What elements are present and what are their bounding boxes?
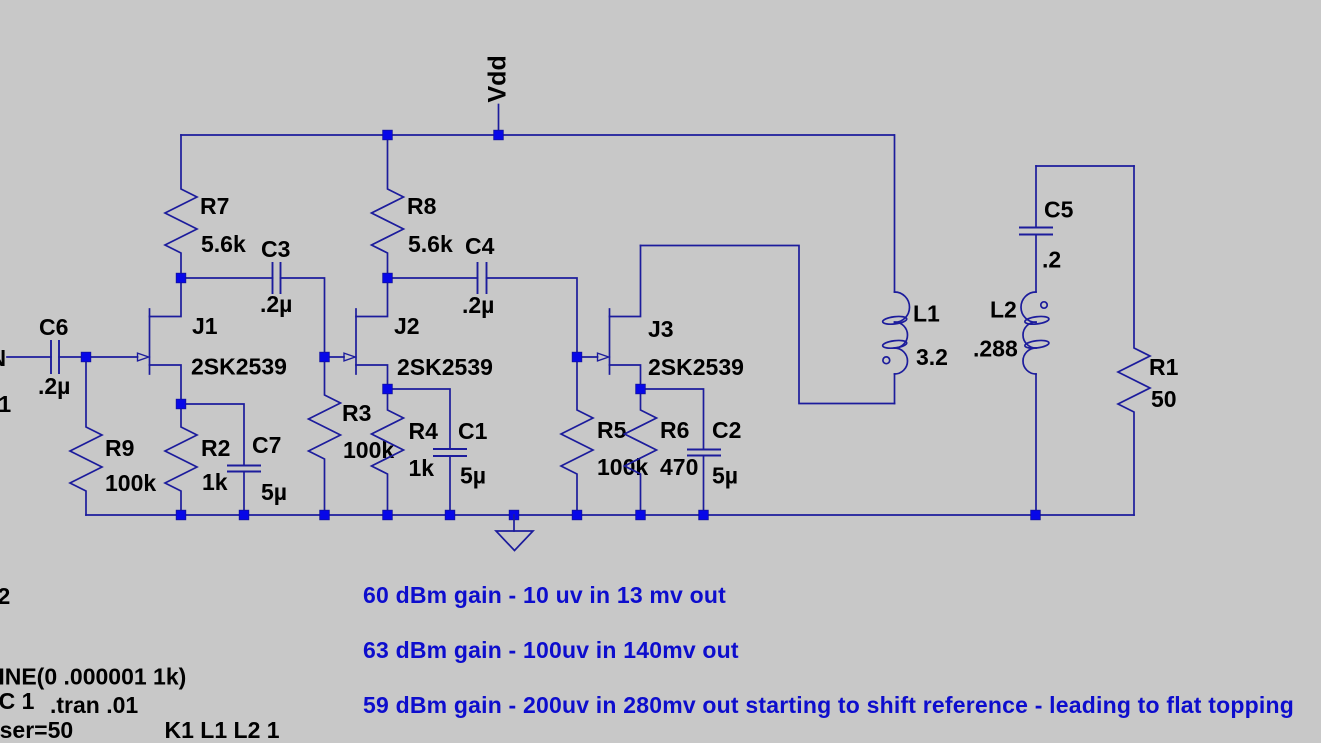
svg-text:L1: L1 xyxy=(913,301,940,327)
svg-text:1: 1 xyxy=(0,391,11,417)
node junction rail C2 xyxy=(699,510,709,520)
node junction J3 source xyxy=(636,384,646,394)
capacitor C7 xyxy=(181,404,287,515)
svg-text:1k: 1k xyxy=(409,455,435,481)
node junction J2 drain xyxy=(383,273,393,283)
svg-text:J2: J2 xyxy=(394,313,420,339)
svg-text:.2: .2 xyxy=(1042,247,1061,273)
transistor J2 2SK2539 xyxy=(344,278,493,389)
node junction rail R3 xyxy=(320,510,330,520)
node junction rail L2 xyxy=(1031,510,1041,520)
wire C5 top xyxy=(1036,165,1134,167)
svg-text:C4: C4 xyxy=(465,233,495,259)
svg-text:C6: C6 xyxy=(39,314,68,340)
svg-text:L2: L2 xyxy=(990,297,1017,323)
node junction rail R6 xyxy=(636,510,646,520)
svg-text:C3: C3 xyxy=(261,236,290,262)
wire bottom ground rail xyxy=(86,514,1134,516)
resistor R9 xyxy=(70,357,156,515)
svg-text:2SK2539: 2SK2539 xyxy=(648,354,744,380)
svg-text:R2: R2 xyxy=(201,435,230,461)
node junction input xyxy=(81,352,91,362)
resistor R8 xyxy=(372,135,453,278)
svg-text:2SK2539: 2SK2539 xyxy=(191,354,287,380)
resistor R5 xyxy=(561,357,648,515)
wire J3 drain to L1 xyxy=(641,246,895,404)
svg-text:J1: J1 xyxy=(192,313,218,339)
svg-text:J3: J3 xyxy=(648,316,674,342)
wire J2 drain node to C4 xyxy=(388,277,478,279)
node junction J1 source xyxy=(176,399,186,409)
svg-text:N: N xyxy=(0,345,6,371)
capacitor C6 xyxy=(38,314,70,399)
resistor R4 xyxy=(372,389,439,515)
capacitor C2 xyxy=(641,389,742,515)
wire top supply rail xyxy=(181,134,894,136)
svg-text:R4: R4 xyxy=(409,418,439,444)
Vdd power flag xyxy=(484,55,512,135)
input wire and label N xyxy=(0,345,51,417)
node junction rail C7 xyxy=(239,510,249,520)
node junction J3 gate xyxy=(572,352,582,362)
svg-text:5.6k: 5.6k xyxy=(408,231,453,257)
wire gate J1 xyxy=(86,356,138,358)
svg-text:R6: R6 xyxy=(660,417,689,443)
resistor R6 xyxy=(625,389,699,515)
capacitor C5 xyxy=(1019,166,1074,292)
svg-text:.2µ: .2µ xyxy=(260,291,292,317)
node junction on rail at Vdd xyxy=(494,130,504,140)
wire C6 to input node xyxy=(59,356,86,358)
svg-text:.2µ: .2µ xyxy=(462,292,494,318)
transistor J3 2SK2539 xyxy=(598,246,744,390)
svg-text:R1: R1 xyxy=(1149,354,1179,380)
svg-text:K1 L1 L2 1: K1 L1 L2 1 xyxy=(165,717,280,743)
node junction rail C1 xyxy=(445,510,455,520)
transistor J1 2SK2539 xyxy=(138,278,287,404)
resistor R7 xyxy=(165,135,246,278)
wire J1 drain node to C3 xyxy=(181,277,273,279)
wire gate J2 xyxy=(325,356,345,358)
svg-text:5µ: 5µ xyxy=(460,463,486,489)
wire C4 to J3 gate node xyxy=(487,278,578,357)
node junction rail R2 xyxy=(176,510,186,520)
svg-text:R5: R5 xyxy=(597,417,627,443)
node junction rail R5 xyxy=(572,510,582,520)
svg-text:1k: 1k xyxy=(202,469,228,495)
svg-text:470: 470 xyxy=(660,454,698,480)
svg-text:50: 50 xyxy=(1151,386,1177,412)
svg-text:.288: .288 xyxy=(973,336,1018,362)
capacitor C1 xyxy=(388,389,488,515)
ground xyxy=(496,515,533,551)
svg-text:2: 2 xyxy=(0,583,10,609)
svg-text:5µ: 5µ xyxy=(712,463,738,489)
resistor R1 xyxy=(1118,166,1179,515)
svg-text:3.2: 3.2 xyxy=(916,344,948,370)
node junction on rail at R8 xyxy=(383,130,393,140)
inductor L1 xyxy=(882,135,948,404)
svg-text:.2µ: .2µ xyxy=(38,373,70,399)
svg-text:100k: 100k xyxy=(105,470,156,496)
svg-text:C2: C2 xyxy=(712,417,741,443)
svg-text:5µ: 5µ xyxy=(261,479,287,505)
svg-text:Vdd: Vdd xyxy=(484,55,512,102)
svg-text:59 dBm gain - 200uv in 280mv o: 59 dBm gain - 200uv in 280mv out startin… xyxy=(363,692,1294,718)
svg-text:C5: C5 xyxy=(1044,197,1074,223)
wire C3 to J2 gate node xyxy=(281,278,325,357)
svg-text:R7: R7 xyxy=(200,193,229,219)
resistor R2 xyxy=(165,404,230,515)
resistor R3 xyxy=(309,357,395,515)
svg-text:60 dBm gain - 10 uv in 13 mv o: 60 dBm gain - 10 uv in 13 mv out xyxy=(363,582,726,608)
svg-text:Rser=50: Rser=50 xyxy=(0,717,73,743)
capacitor C3 xyxy=(260,236,292,317)
svg-text:SINE(0 .000001 1k): SINE(0 .000001 1k) xyxy=(0,664,186,690)
svg-text:63 dBm gain - 100uv in 140mv o: 63 dBm gain - 100uv in 140mv out xyxy=(363,637,739,663)
svg-text:5.6k: 5.6k xyxy=(201,231,246,257)
svg-text:C1: C1 xyxy=(458,418,488,444)
capacitor C4 xyxy=(462,233,495,318)
svg-text:R9: R9 xyxy=(105,435,134,461)
inductor L2 xyxy=(973,292,1049,515)
wire gate J3 xyxy=(577,356,598,358)
node junction J1 drain xyxy=(176,273,186,283)
node junction J2 source xyxy=(383,384,393,394)
svg-text:AC 1: AC 1 xyxy=(0,688,35,714)
svg-text:R8: R8 xyxy=(407,193,437,219)
svg-text:2SK2539: 2SK2539 xyxy=(397,354,493,380)
svg-text:.tran .01: .tran .01 xyxy=(50,692,138,718)
node junction rail R4 xyxy=(383,510,393,520)
node junction rail ground xyxy=(509,510,519,520)
node junction J2 gate xyxy=(320,352,330,362)
svg-text:C7: C7 xyxy=(252,432,281,458)
svg-text:R3: R3 xyxy=(342,400,371,426)
